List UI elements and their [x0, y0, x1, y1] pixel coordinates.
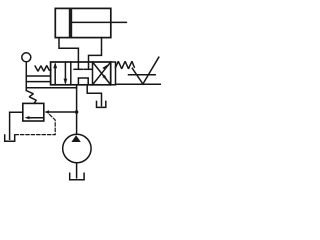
valve V1 left spring [35, 66, 51, 72]
valve V1 lever base line [116, 83, 161, 85]
valve V1 lever arm [132, 57, 159, 84]
pilot line lower to valve [26, 81, 50, 83]
valve V1 right spring [116, 61, 135, 69]
valve V1 center position blocked port B [85, 62, 93, 69]
valve V1 lever slot line [129, 74, 156, 76]
cylinder body [55, 8, 111, 37]
valve tank port drain wire [87, 85, 101, 106]
pilot line upper to valve [26, 75, 50, 77]
junction node dot [75, 110, 79, 114]
wire cylinder rod-end to valve port B [89, 38, 102, 62]
valve V1 left position down-arrow [64, 62, 68, 85]
tank T2 (pump suction) [70, 173, 84, 180]
relief valve RV1 body [23, 103, 44, 121]
gauge sense wire to pump line [26, 87, 76, 89]
gauge stem wire [25, 62, 27, 91]
cylinder piston rod [72, 21, 126, 23]
relief valve RV1 spring [26, 91, 36, 104]
valve V1 right end box [111, 62, 116, 85]
pump P1 [63, 134, 91, 162]
valve V1 center position P-T bypass [78, 78, 88, 85]
tank T3 (valve drain) [97, 101, 106, 107]
tank T1 (relief outlet) [5, 135, 15, 141]
wire cylinder cap-end to valve port A [59, 38, 78, 62]
relief valve outlet wire to tank [10, 112, 23, 139]
relief valve inlet wire with arrow [44, 110, 76, 114]
relief valve drain pilot dashed wire [15, 115, 55, 135]
valve V1 body [51, 62, 111, 85]
valve V1 center position blocked port A [74, 62, 83, 69]
valve V1 right position crossed arrows [93, 62, 111, 85]
pump suction wire [76, 163, 78, 178]
pump discharge wire [76, 85, 78, 134]
relief valve RV1 internal arrow [25, 116, 44, 119]
pressure gauge G1 [22, 53, 31, 62]
valve V1 left position up-arrow [53, 62, 57, 85]
cylinder piston [69, 8, 72, 37]
